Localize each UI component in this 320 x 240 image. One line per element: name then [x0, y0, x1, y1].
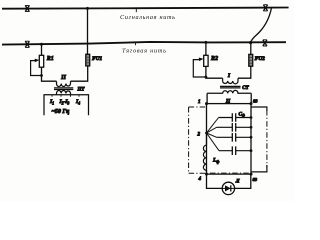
svg-text:I2-I3: I2-I3: [59, 99, 70, 105]
svg-text:R1: R1: [46, 56, 54, 62]
node: R2 wiper loop junction: [205, 76, 208, 79]
wire: traction bus junction to FU2: [250, 43, 252, 55]
fuse FU1: [86, 54, 90, 66]
insulator X on signal bus left: [25, 5, 29, 11]
wire: FU2 to transformer ST: [238, 66, 251, 78]
resistor R2: [204, 55, 208, 66]
wire: lamp to terminal 83 bottom: [235, 174, 251, 188]
wire: FU1 to transformer PT: [71, 66, 88, 81]
node: R1 wiper loop junction: [40, 74, 43, 77]
transformer ST primary winding I: [223, 78, 238, 84]
device box (filter unit): [207, 104, 252, 175]
svg-text:I4: I4: [75, 99, 80, 105]
svg-text:Сигнальная нить: Сигнальная нить: [120, 14, 175, 21]
wire: signal bus (top line): [2, 8, 289, 9]
svg-text:83: 83: [253, 99, 258, 104]
leader tick for label Сигнальная нить: [135, 8, 137, 12]
node 2 (selector point): [205, 132, 208, 135]
svg-text:Л: Л: [235, 179, 240, 185]
arrowhead of R2 wiper: [199, 58, 204, 62]
svg-text:I: I: [227, 73, 231, 79]
wire: R1 wiper loop: [31, 61, 42, 76]
transformer ST core: [220, 86, 241, 88]
fuse FU2: [249, 54, 253, 66]
svg-text:2: 2: [197, 132, 201, 137]
wire: right bus to terminal 83 bottom: [251, 165, 267, 172]
wire: fan line to branch 1: [207, 118, 219, 134]
wire: R2 bottom run: [206, 66, 223, 78]
svg-text:СТ: СТ: [242, 86, 249, 91]
wire: fan line to branch 4: [207, 133, 220, 151]
capacitor branch 2: [217, 126, 251, 128]
svg-text:II: II: [60, 74, 66, 81]
capacitor branch 3: [217, 136, 251, 138]
svg-text:R2: R2: [210, 56, 218, 62]
svg-text:4: 4: [198, 177, 202, 182]
node: terminal 4 corner: [205, 173, 208, 176]
transformer PT core: [54, 88, 73, 90]
wire: terminal 4 to lamp: [207, 174, 223, 188]
svg-text:I1: I1: [49, 99, 54, 105]
node: junction of FU2 / jumper on traction bus: [249, 41, 252, 44]
svg-text:FU1: FU1: [92, 56, 102, 62]
insulator X on traction bus left: [25, 41, 29, 47]
svg-text:Lф: Lф: [212, 158, 219, 164]
svg-text:FU2: FU2: [255, 56, 265, 62]
svg-text:Тяговая нить: Тяговая нить: [122, 47, 166, 54]
transformer ST secondary winding II: [207, 90, 251, 93]
svg-text:1: 1: [198, 100, 201, 105]
dash-dot enclosure: [189, 107, 267, 173]
svg-text:83: 83: [253, 177, 258, 182]
svg-text:Сф: Сф: [239, 111, 245, 117]
arrowhead of R1 wiper: [35, 59, 40, 63]
wire: traction bus to R1: [41, 44, 43, 55]
wire: jumper curve from signal bus to traction bus: [251, 8, 272, 43]
lamp L (circle with diode symbol): [222, 182, 234, 194]
transformer PT primary winding II: [57, 81, 71, 86]
wire: traction bus to R2: [205, 42, 207, 55]
terminal ticks I1..I4: [52, 95, 79, 97]
wire: fan line to branch 3: [207, 133, 217, 137]
leader tick for label Тяговая нить: [135, 42, 137, 46]
wire: ST secondary left drop to terminal 1: [206, 93, 208, 103]
node: terminal 83 top corner: [250, 102, 253, 105]
wire: ST secondary right drop to terminal 83: [250, 93, 252, 103]
wire: R2 wiper loop: [193, 60, 206, 77]
capacitor branch 4: [219, 150, 251, 152]
insulator X on traction bus right: [263, 40, 267, 46]
wire: fan line to branch 2: [207, 127, 217, 133]
wire: FU1 drop from signal bus (crosses traction bus): [87, 8, 89, 54]
resistor R1: [39, 55, 43, 67]
wire: R1 bottom run: [42, 67, 57, 81]
terminal box of PT (50 Hz source): [44, 95, 89, 116]
wire: terminal 83 top to right bus: [251, 107, 267, 111]
node: junction of R2 on traction bus: [204, 41, 207, 44]
insulator X on signal bus right: [263, 5, 267, 11]
node: terminal 83 bottom corner: [250, 173, 253, 176]
svg-text:ПТ: ПТ: [77, 88, 86, 93]
inductor Lf: [203, 133, 206, 174]
capacitor branch 1 (Cf): [219, 117, 251, 119]
transformer PT secondary winding: [57, 90, 71, 94]
node: junction of R1 on traction bus: [40, 43, 43, 46]
node: junction of FU1 drop on signal bus: [86, 7, 89, 10]
wire: traction bus (second line): [2, 42, 286, 45]
svg-text:~50 Гц: ~50 Гц: [52, 109, 71, 115]
node: terminal 1 corner: [205, 102, 208, 105]
